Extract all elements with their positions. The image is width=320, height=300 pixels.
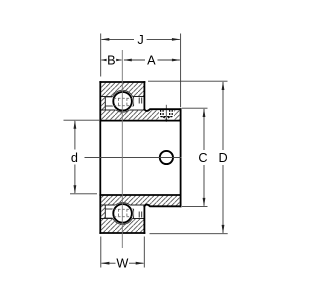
outer ring top-left column (100, 97, 105, 111)
dimension W (outer ring width) (101, 257, 144, 271)
svg-text:J: J (137, 33, 143, 47)
extension lines bearing OD (D) (148, 81, 228, 234)
bottom (114, 216, 132, 218)
outer ring right face bottom (143, 206, 145, 233)
dimension A (123, 54, 180, 68)
white knockouts: ball clearances (111, 90, 134, 113)
svg-text:B: B (107, 54, 115, 68)
inner ring bottom band (100, 195, 144, 205)
white punch to clean near balls (112, 90, 134, 112)
cage solid lines top (105, 97, 141, 218)
extension line right face (J/A) (180, 34, 182, 108)
dimension J (101, 33, 181, 47)
dimension B (101, 54, 122, 68)
column edges (104, 97, 106, 111)
sleeve bottom face (144, 205, 180, 207)
extension lines sleeve OD (C) (182, 108, 208, 206)
cage solid lines bottom (105, 217, 113, 219)
dimension d (bore) (71, 120, 78, 193)
setscrew hidden hole dashes (161, 110, 173, 120)
inner shoulders (100, 109, 144, 111)
sleeve bottom (144, 195, 180, 207)
dimension D (bearing OD) (219, 82, 228, 234)
white notch top sleeve root (144, 108, 151, 111)
hidden (dashed) cage lines across balls : top (114, 98, 132, 216)
svg-text:D: D (219, 151, 228, 165)
outer shoulders (100, 96, 144, 98)
white notch bottom sleeve root (144, 205, 151, 208)
extension lines bore (d) (64, 120, 100, 194)
sleeve top (inner ring extension) (144, 109, 180, 121)
outer ring bottom-left column (100, 205, 105, 219)
race arcs (112, 90, 134, 224)
outer ring top band (100, 82, 144, 97)
sleeve right face (180, 109, 182, 206)
outer ring bottom band (100, 219, 144, 234)
bore top line (100, 120, 180, 122)
balls (113, 92, 132, 111)
sleeve top face (144, 109, 180, 111)
OD top face (100, 81, 144, 83)
outer ring right face top (143, 82, 145, 109)
svg-text:W: W (116, 257, 128, 271)
extension line left face (J/B) (100, 34, 102, 77)
dimension C (sleeve OD) (198, 109, 207, 207)
extension lines width (W) (101, 237, 145, 268)
svg-text:d: d (71, 151, 78, 165)
left face (99, 82, 101, 233)
lube/setscrew hole circle on bore (160, 151, 173, 164)
OD bottom face (100, 232, 144, 234)
bore bottom line (100, 194, 180, 196)
white cage gap rects (105, 97, 138, 111)
white setscrew hole rect (159, 110, 174, 120)
inner ring top band (100, 110, 144, 121)
svg-text:A: A (147, 54, 156, 68)
svg-text:C: C (198, 151, 207, 165)
setscrew centerline (165, 105, 167, 122)
